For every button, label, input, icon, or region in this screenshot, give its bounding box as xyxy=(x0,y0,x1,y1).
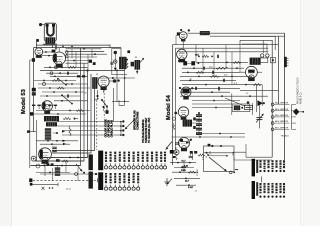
wire V9 links xyxy=(240,71,246,73)
dots row y46.5 xyxy=(55,46,57,48)
wire fan y57 xyxy=(66,56,98,58)
tube V2 xyxy=(53,52,66,65)
tube V3 xyxy=(42,101,53,112)
switch S1 xyxy=(102,100,107,107)
resistor R11 xyxy=(233,61,241,63)
parts list row B (Model 54) xyxy=(252,181,255,199)
resistor R13 xyxy=(210,75,219,77)
svg-text:POWER: POWER xyxy=(197,168,199,176)
ladder stub b xyxy=(213,52,215,77)
ground symbol xyxy=(166,178,168,182)
diode triangle xyxy=(257,100,263,106)
svg-text:Model 53: Model 53 xyxy=(21,88,27,114)
wire row 140.8 xyxy=(36,140,78,142)
parts row y76.4 xyxy=(50,75,88,77)
wire R vertical B xyxy=(277,36,279,104)
parts list row 2 (Model 53) xyxy=(89,172,93,189)
parts row y92 xyxy=(42,91,84,93)
svg-text:BLK-GRN TR: BLK-GRN TR xyxy=(275,115,289,117)
V2 dark side xyxy=(53,54,56,62)
terminal block dark xyxy=(32,88,36,92)
arrow small A xyxy=(62,130,65,132)
nested corner 4 xyxy=(262,40,264,53)
wire drops cluster xyxy=(44,161,46,176)
wire row y185r xyxy=(176,184,196,186)
padder cap stack xyxy=(196,114,202,116)
wire row y78 ext xyxy=(96,77,136,79)
resistor R5 xyxy=(76,110,84,112)
T1b marks xyxy=(136,71,138,73)
page left edge xyxy=(11,0,13,226)
wire V7 drop xyxy=(182,40,184,49)
speaker box xyxy=(204,146,235,172)
tube V4 output xyxy=(98,76,109,87)
wire row 157.5 xyxy=(40,157,88,159)
page right edge xyxy=(300,0,302,226)
cluster dark rects xyxy=(46,163,49,165)
terminal sq left xyxy=(32,58,35,62)
rung y130.5 xyxy=(62,130,114,132)
wire row 144 xyxy=(40,143,70,145)
IF transformer T1 xyxy=(119,57,126,69)
wire V2 top xyxy=(58,48,60,52)
legend ladder xyxy=(120,122,122,136)
speaker frame SP1 xyxy=(44,23,56,41)
parts list row 1 (Model 53) xyxy=(89,154,93,170)
speaker box row xyxy=(204,152,235,154)
tube V11 xyxy=(179,138,190,149)
parts row y101 xyxy=(54,100,88,102)
wire drop x192 xyxy=(192,153,194,160)
wire L vertical R2 xyxy=(174,48,176,150)
cap C7 xyxy=(110,62,113,64)
dark dash row xyxy=(77,75,80,77)
bottom frame wire xyxy=(234,159,272,161)
ladder stub a xyxy=(195,45,197,62)
part blob xyxy=(131,62,134,67)
capacitor C14 xyxy=(194,87,196,90)
pointer label box xyxy=(244,105,252,109)
capacitor C11 xyxy=(202,67,204,70)
speaker cone xyxy=(209,157,226,170)
stack side marks xyxy=(193,117,196,120)
shield dashed vert xyxy=(103,86,105,118)
parts row y110.5 xyxy=(36,110,90,112)
resistor R3 xyxy=(52,80,60,82)
grid cap dot xyxy=(113,79,117,83)
speaker box wires xyxy=(245,144,247,157)
rectifier tube V5 xyxy=(39,148,52,161)
wire row R52 xyxy=(178,51,268,53)
cap C15 xyxy=(175,142,179,144)
resistor R7v xyxy=(69,126,71,136)
T1 blob topright xyxy=(127,50,130,53)
capacitor C2 xyxy=(66,72,68,75)
tube V9 xyxy=(246,66,258,78)
T3 right parts xyxy=(63,118,71,120)
connector bar xyxy=(284,57,287,67)
svg-text:CONNECTIONS: CONNECTIONS xyxy=(137,111,140,130)
wire row y80 xyxy=(180,79,236,81)
capacitor C4 xyxy=(66,94,68,97)
parts list row A (Model 54) xyxy=(252,159,255,177)
T1b arrow xyxy=(140,59,144,63)
speaker row arrow xyxy=(208,155,226,157)
wire row y137 xyxy=(172,136,246,138)
speaker jack xyxy=(261,54,264,57)
wire row 172.4 xyxy=(36,171,70,173)
cap C16 xyxy=(182,165,186,167)
condenser drop wire xyxy=(258,104,260,128)
ladder stub c xyxy=(231,52,233,85)
wire tube links xyxy=(109,80,113,82)
svg-text:TAKEN FROM SOCKET: TAKEN FROM SOCKET xyxy=(145,117,148,143)
parts row y70.4 xyxy=(40,69,125,71)
svg-text:54-21: 54-21 xyxy=(66,189,72,191)
wire top bus R1 xyxy=(188,32,285,34)
resistor R14 xyxy=(253,84,261,86)
parts row y96 xyxy=(40,95,80,97)
speaker magnet horseshoe xyxy=(47,25,53,36)
small circle part B xyxy=(36,164,40,168)
speaker plug blob xyxy=(29,178,32,182)
wire bus x94.5 xyxy=(52,78,95,151)
wiring diamond xyxy=(293,108,299,115)
resistor R12b xyxy=(216,67,228,69)
arrow diagonal xyxy=(76,164,82,171)
pointer dot xyxy=(247,101,250,104)
tube V7 xyxy=(179,32,187,40)
box line y90.3 xyxy=(240,89,278,91)
band B stub xyxy=(260,176,262,182)
wire fan y51.5 xyxy=(66,51,105,53)
wire bus x87.5 xyxy=(40,70,88,157)
shield dashed vert 2 xyxy=(96,100,98,150)
wire bus x80.5 xyxy=(31,48,81,166)
V2 side parts xyxy=(52,50,56,53)
svg-text:TO CHASSIS (ALL 25V): TO CHASSIS (ALL 25V) xyxy=(148,117,151,143)
parts row y67 xyxy=(44,66,88,68)
power transformer T3b xyxy=(46,122,57,126)
dashed wire bottom xyxy=(33,179,98,181)
terminal strip bus xyxy=(291,105,293,130)
x mark xyxy=(42,187,45,190)
wire R vertical A xyxy=(284,33,286,160)
wire top corner R xyxy=(240,39,272,41)
cap stack dot xyxy=(56,132,58,134)
V9b dark fill xyxy=(182,89,189,93)
wire L vertical R xyxy=(172,45,174,165)
resistor R1 xyxy=(68,66,76,68)
tube V1 xyxy=(35,48,43,56)
resistor R6 xyxy=(126,61,128,68)
V9 dark electrodes xyxy=(248,70,254,73)
wire fan y48.8 xyxy=(66,48,102,50)
wire switch drop xyxy=(103,87,105,93)
row y167r xyxy=(174,166,194,168)
resistor R16 xyxy=(188,171,196,173)
T1 trimmer bottom xyxy=(114,60,117,63)
wire fan y60.5 xyxy=(66,60,89,62)
oscillator coil box xyxy=(232,104,250,112)
V11 blobs xyxy=(180,139,183,142)
wire row y68 xyxy=(182,67,244,69)
tube V9b xyxy=(181,87,191,97)
wire row y96 xyxy=(180,95,268,97)
resistor R12 xyxy=(196,71,204,73)
arrow lower xyxy=(167,179,172,184)
wire speaker to bus xyxy=(46,44,48,45)
resistor R8 xyxy=(62,160,69,162)
mixer left circle xyxy=(172,117,175,120)
svg-text:PHILCO RADIO & TELEV.: PHILCO RADIO & TELEV. xyxy=(297,77,300,104)
wire row y107.5 xyxy=(192,107,232,109)
speaker cone dot xyxy=(230,171,233,174)
rung y126 xyxy=(46,125,114,127)
jack pins xyxy=(260,56,262,58)
osc coil stripes xyxy=(234,105,240,110)
T1 trimmer top xyxy=(114,51,117,54)
resistor R4 xyxy=(57,87,65,89)
row y172 xyxy=(172,171,198,173)
pilot lamp dot xyxy=(39,23,42,26)
wire row 161 xyxy=(35,160,84,162)
wire V10 links xyxy=(183,117,185,119)
jumper diagonal 2 xyxy=(58,79,66,85)
wire row y100.5 xyxy=(192,100,240,102)
rung y135 xyxy=(62,134,114,136)
rung y121.5 xyxy=(57,121,114,123)
cap stack power xyxy=(45,128,51,130)
arrow small B xyxy=(63,140,66,142)
wave trap T1b xyxy=(135,60,141,70)
dash mark left of list xyxy=(235,169,238,171)
svg-text:CABLE PLUG: CABLE PLUG xyxy=(109,120,113,137)
T1 arrowhead xyxy=(114,68,117,71)
wire row y92 xyxy=(180,91,230,93)
wire bottom 2 xyxy=(31,183,58,185)
tube V3 rim dark xyxy=(43,102,46,109)
small circle part A xyxy=(31,156,36,161)
wire top bus 1 xyxy=(36,44,110,46)
padder stack wires xyxy=(198,113,200,136)
wire row y84 xyxy=(182,84,262,86)
caps dark row xyxy=(183,61,187,65)
antenna arrow xyxy=(166,142,172,149)
speaker box top marks xyxy=(208,144,211,147)
pointer diagonal xyxy=(225,98,245,106)
coil L3 stripes xyxy=(183,120,192,127)
output choke L2 xyxy=(92,77,97,89)
nested corner 2 xyxy=(240,37,275,51)
V2 left stubs xyxy=(42,51,53,53)
antenna transformer T4 xyxy=(250,58,261,65)
corner line y101.7 xyxy=(112,101,129,103)
T1 bracket xyxy=(111,48,113,74)
output transformer T2 xyxy=(45,37,55,44)
jumper diagonal xyxy=(62,95,72,103)
wire fan y63.2 xyxy=(66,62,89,64)
terminal blob xyxy=(36,39,39,42)
row y162 xyxy=(170,162,196,164)
tuning condenser xyxy=(256,117,262,119)
tube V1 base blob xyxy=(36,55,42,57)
wire fan y54.2 xyxy=(66,53,108,55)
magnet pole blobs xyxy=(46,24,49,27)
speaker cone arrowhead xyxy=(224,169,227,172)
dark blob lowleft xyxy=(170,150,174,154)
nested corner 3 xyxy=(242,44,267,53)
box corner lines xyxy=(233,152,246,155)
label box tone xyxy=(200,31,210,35)
dashed wire end tick xyxy=(97,178,99,182)
terminal strip TS1 xyxy=(271,103,274,106)
tube V10 xyxy=(178,107,188,117)
legend diagonal arrow xyxy=(126,120,135,129)
cap C17 xyxy=(189,155,193,157)
wire top bus 2 xyxy=(34,47,122,49)
wire R vertical C xyxy=(271,40,273,157)
wire bus x113 xyxy=(112,88,114,122)
svg-text:PAGE 8-13: PAGE 8-13 xyxy=(299,92,302,104)
cap marks right of tube xyxy=(52,146,57,148)
wire bus x91 xyxy=(52,74,91,153)
legend tick xyxy=(102,106,104,108)
V7 marks xyxy=(177,32,180,35)
svg-text:PWR: PWR xyxy=(181,170,186,172)
wire bus x84 xyxy=(35,63,84,161)
svg-text:Model 54: Model 54 xyxy=(166,94,172,120)
wire row y72 xyxy=(182,71,240,73)
wire row R44 xyxy=(173,44,279,46)
wire row 165.5 xyxy=(31,165,81,167)
wire top bus R2 xyxy=(210,35,285,37)
svg-text:BLK-GRN TR: BLK-GRN TR xyxy=(275,109,289,111)
svg-text:BLK-GRN TR: BLK-GRN TR xyxy=(275,121,289,123)
wire row y133.5 xyxy=(196,133,245,135)
small circle part xyxy=(174,150,179,155)
V10 side dot xyxy=(174,112,177,115)
wire row y104r xyxy=(192,103,232,105)
resistor R10 xyxy=(202,55,209,57)
parts row y88 xyxy=(38,87,90,89)
capacitor C13 xyxy=(222,79,224,82)
capacitor C12 xyxy=(211,71,213,74)
tube V8 xyxy=(177,49,187,59)
svg-text:VOLTAGE READINGS: VOLTAGE READINGS xyxy=(142,119,145,143)
rect marks above T3 xyxy=(32,105,35,106)
svg-text:6-217: 6-217 xyxy=(188,187,194,189)
chassis ticks xyxy=(27,130,30,132)
capacitor C10 xyxy=(216,55,218,58)
wire row R48 xyxy=(175,47,268,49)
bundle top blobs xyxy=(89,60,92,63)
power transformer T3 xyxy=(44,116,59,121)
parts row y80.5 xyxy=(34,80,76,82)
svg-text:BLK-GRN TR: BLK-GRN TR xyxy=(275,127,289,129)
diode verticals xyxy=(252,103,254,115)
parts row y73 xyxy=(46,72,78,74)
mixer left zigzag xyxy=(173,123,175,130)
parts row y114 xyxy=(30,113,86,115)
parts row y84 xyxy=(38,83,88,85)
svg-text:BLK-GRN TR: BLK-GRN TR xyxy=(275,103,289,105)
wire row y88 xyxy=(182,87,240,89)
row y178 xyxy=(174,177,200,179)
wire T1 bottom drop xyxy=(124,69,126,102)
V5 dark rim xyxy=(40,150,43,159)
bottom parts cluster xyxy=(190,151,193,154)
tube V8 base xyxy=(178,60,185,63)
cap stack low xyxy=(55,167,60,169)
wire speaker left xyxy=(36,42,38,48)
tiny blob col xyxy=(173,156,175,158)
fan stubs xyxy=(71,49,73,58)
row y62 wire xyxy=(196,61,248,63)
row components y60 xyxy=(198,56,200,58)
svg-text:YEL-BLK: YEL-BLK xyxy=(281,136,290,138)
wire row y76 xyxy=(180,75,252,77)
resistor R15 xyxy=(175,152,177,160)
wire left bus xyxy=(33,48,35,132)
